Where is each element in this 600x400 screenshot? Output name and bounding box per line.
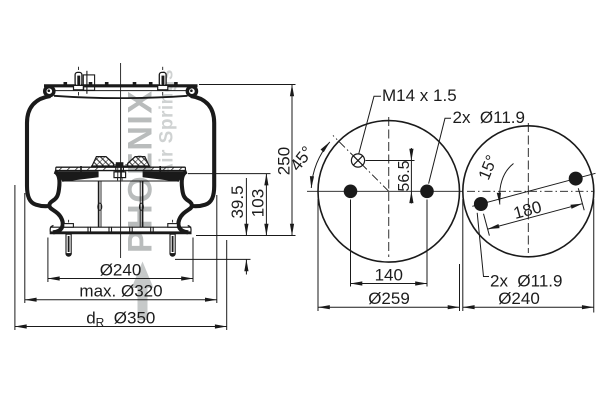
svg-text:140: 140 bbox=[375, 266, 403, 285]
rubber bead wedge left (black) bbox=[56, 171, 99, 182]
dimension diameter 240 bbox=[48, 238, 193, 283]
vertical centerline dashed bbox=[388, 117, 390, 257]
svg-text:Ø259: Ø259 bbox=[368, 289, 410, 308]
air fitting rectangle bbox=[83, 71, 94, 94]
dimension 15 degrees arc bbox=[500, 164, 514, 205]
dimension diameter 240 right bbox=[463, 199, 594, 313]
rolled edge left bbox=[43, 85, 56, 98]
bellows outer wall left bbox=[27, 96, 51, 206]
piston wall bump right bbox=[139, 203, 143, 210]
dimension 39.5 bbox=[175, 178, 251, 275]
dimension 56.5 bbox=[366, 148, 415, 204]
dimension 180 bbox=[484, 188, 585, 235]
dimension max diameter 320 bbox=[25, 193, 217, 303]
hole upper-right bbox=[569, 172, 583, 186]
watermark arrow logo bbox=[132, 262, 154, 321]
bead plate hatch ticks bbox=[59, 167, 182, 170]
bead plate circle bbox=[318, 121, 460, 262]
svg-text:56.5: 56.5 bbox=[396, 160, 413, 191]
horizontal centerline bbox=[307, 190, 463, 192]
plate rivet nubs bbox=[64, 82, 178, 85]
top plate bbox=[44, 84, 198, 87]
svg-text:2x Ø11.9: 2x Ø11.9 bbox=[490, 272, 562, 291]
stud bottom right bbox=[168, 220, 178, 256]
base plate weld ticks bbox=[88, 227, 153, 234]
dimension diameter 259 bbox=[318, 199, 460, 311]
svg-text:Ø240: Ø240 bbox=[498, 289, 540, 308]
svg-text:39.5: 39.5 bbox=[228, 185, 247, 218]
stud bottom left bbox=[64, 220, 74, 256]
hole lower-left bbox=[474, 197, 488, 211]
piston wall bump left bbox=[98, 203, 102, 210]
dimension 103 bbox=[188, 174, 271, 236]
bolt right on top plate bbox=[158, 67, 168, 96]
center bolt under cone bbox=[114, 162, 126, 180]
svg-text:2x Ø11.9: 2x Ø11.9 bbox=[453, 108, 525, 127]
horizontal centerline dash-dot bbox=[467, 190, 594, 192]
label M14 x 1.5 with leader bbox=[359, 96, 381, 154]
piston circle bbox=[463, 126, 594, 257]
base plate bbox=[50, 226, 192, 233]
svg-text:M14 x 1.5: M14 x 1.5 bbox=[382, 86, 457, 105]
bellows bead S-curve right bbox=[178, 172, 191, 233]
bellows shoulder line bbox=[54, 96, 188, 98]
piston walls bbox=[62, 181, 179, 227]
bellows outer wall right bbox=[191, 96, 215, 206]
label 2x diameter 11.9 bottom with leader bbox=[477, 213, 489, 277]
dimension dR diameter 350 bbox=[15, 185, 227, 330]
svg-text:Ø240: Ø240 bbox=[100, 261, 142, 280]
air fitting M14 symbol bbox=[351, 154, 364, 167]
bellows bead S-curve left bbox=[49, 172, 62, 233]
45 degree centerline bbox=[333, 136, 389, 192]
slanted hole axis 15 degrees bbox=[472, 173, 595, 206]
bumper cone hatched bbox=[91, 157, 150, 167]
dimension 250 bbox=[196, 85, 296, 236]
dimension 140 bbox=[351, 200, 428, 287]
hole right (bolt M12) bbox=[420, 185, 434, 199]
vertical centerline dashed bbox=[527, 123, 529, 253]
hole left (bolt M12) bbox=[344, 185, 358, 199]
bolt left on top plate bbox=[74, 67, 84, 96]
rolled edge right bbox=[186, 85, 199, 98]
rubber bead wedge right (black) bbox=[143, 171, 186, 182]
centerline main vertical bbox=[120, 63, 122, 258]
piston bead plate bbox=[56, 166, 186, 172]
svg-text:103: 103 bbox=[249, 189, 268, 217]
top plate bottom edge bbox=[55, 90, 187, 92]
svg-text:max. Ø320: max. Ø320 bbox=[79, 282, 162, 301]
dimension 45 degrees arc bbox=[311, 142, 330, 188]
label 2x diameter 11.9 top with leader bbox=[429, 118, 451, 183]
